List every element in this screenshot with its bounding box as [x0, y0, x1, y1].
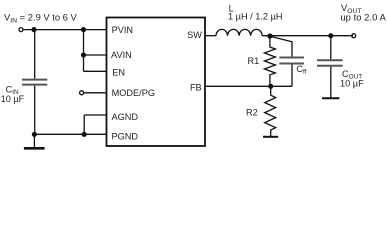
- wire: [205, 35, 216, 37]
- node junction: [32, 132, 37, 137]
- svg-text:R2: R2: [246, 107, 258, 117]
- svg-text:AGND: AGND: [112, 112, 139, 122]
- wire: [270, 36, 292, 57]
- ground: [24, 134, 45, 148]
- wire: [262, 35, 353, 37]
- svg-text:EN: EN: [112, 67, 125, 77]
- svg-text:Cff: Cff: [296, 64, 306, 76]
- svg-text:MODE/PG: MODE/PG: [112, 88, 155, 98]
- svg-text:10 µF: 10 µF: [340, 78, 364, 88]
- svg-text:R1: R1: [248, 56, 260, 66]
- wire: [84, 70, 107, 72]
- capacitor Cff: [279, 58, 304, 87]
- wire: [83, 115, 85, 134]
- ground: [263, 136, 278, 138]
- wire FB: [205, 85, 271, 87]
- inductor L: [216, 29, 262, 35]
- node VOUT terminal: [352, 34, 356, 38]
- node junction: [81, 27, 86, 32]
- ground: [322, 97, 339, 99]
- node MODE terminal: [80, 91, 84, 95]
- svg-text:10 µF: 10 µF: [1, 94, 25, 104]
- wire: [83, 30, 85, 72]
- resistor R2: [265, 86, 276, 136]
- wire: [84, 54, 107, 56]
- node junction: [31, 27, 36, 32]
- node junction: [81, 52, 86, 57]
- svg-text:FB: FB: [190, 83, 202, 93]
- svg-text:PVIN: PVIN: [112, 25, 133, 35]
- svg-text:AVIN: AVIN: [111, 50, 132, 60]
- wire: [271, 85, 292, 87]
- wire: [23, 29, 107, 31]
- wire: [84, 114, 106, 116]
- wire: [34, 133, 106, 135]
- node junction: [82, 132, 87, 137]
- svg-text:1 µH / 1.2 µH: 1 µH / 1.2 µH: [228, 11, 283, 21]
- node VOUT junction: [328, 33, 333, 38]
- resistor R1: [264, 36, 275, 86]
- node SW-L junction: [267, 33, 272, 38]
- svg-text:SW: SW: [187, 30, 202, 40]
- capacitor COUT: [317, 36, 343, 98]
- wire: [84, 92, 107, 94]
- node FB junction: [268, 84, 273, 89]
- svg-text:VIN = 2.9 V to 6 V: VIN = 2.9 V to 6 V: [4, 12, 77, 25]
- svg-text:PGND: PGND: [112, 131, 139, 141]
- svg-text:up to 2.0 A: up to 2.0 A: [340, 12, 386, 23]
- op-amp U1: [107, 18, 206, 147]
- node VIN terminal: [19, 28, 23, 32]
- capacitor CIN: [22, 30, 47, 135]
